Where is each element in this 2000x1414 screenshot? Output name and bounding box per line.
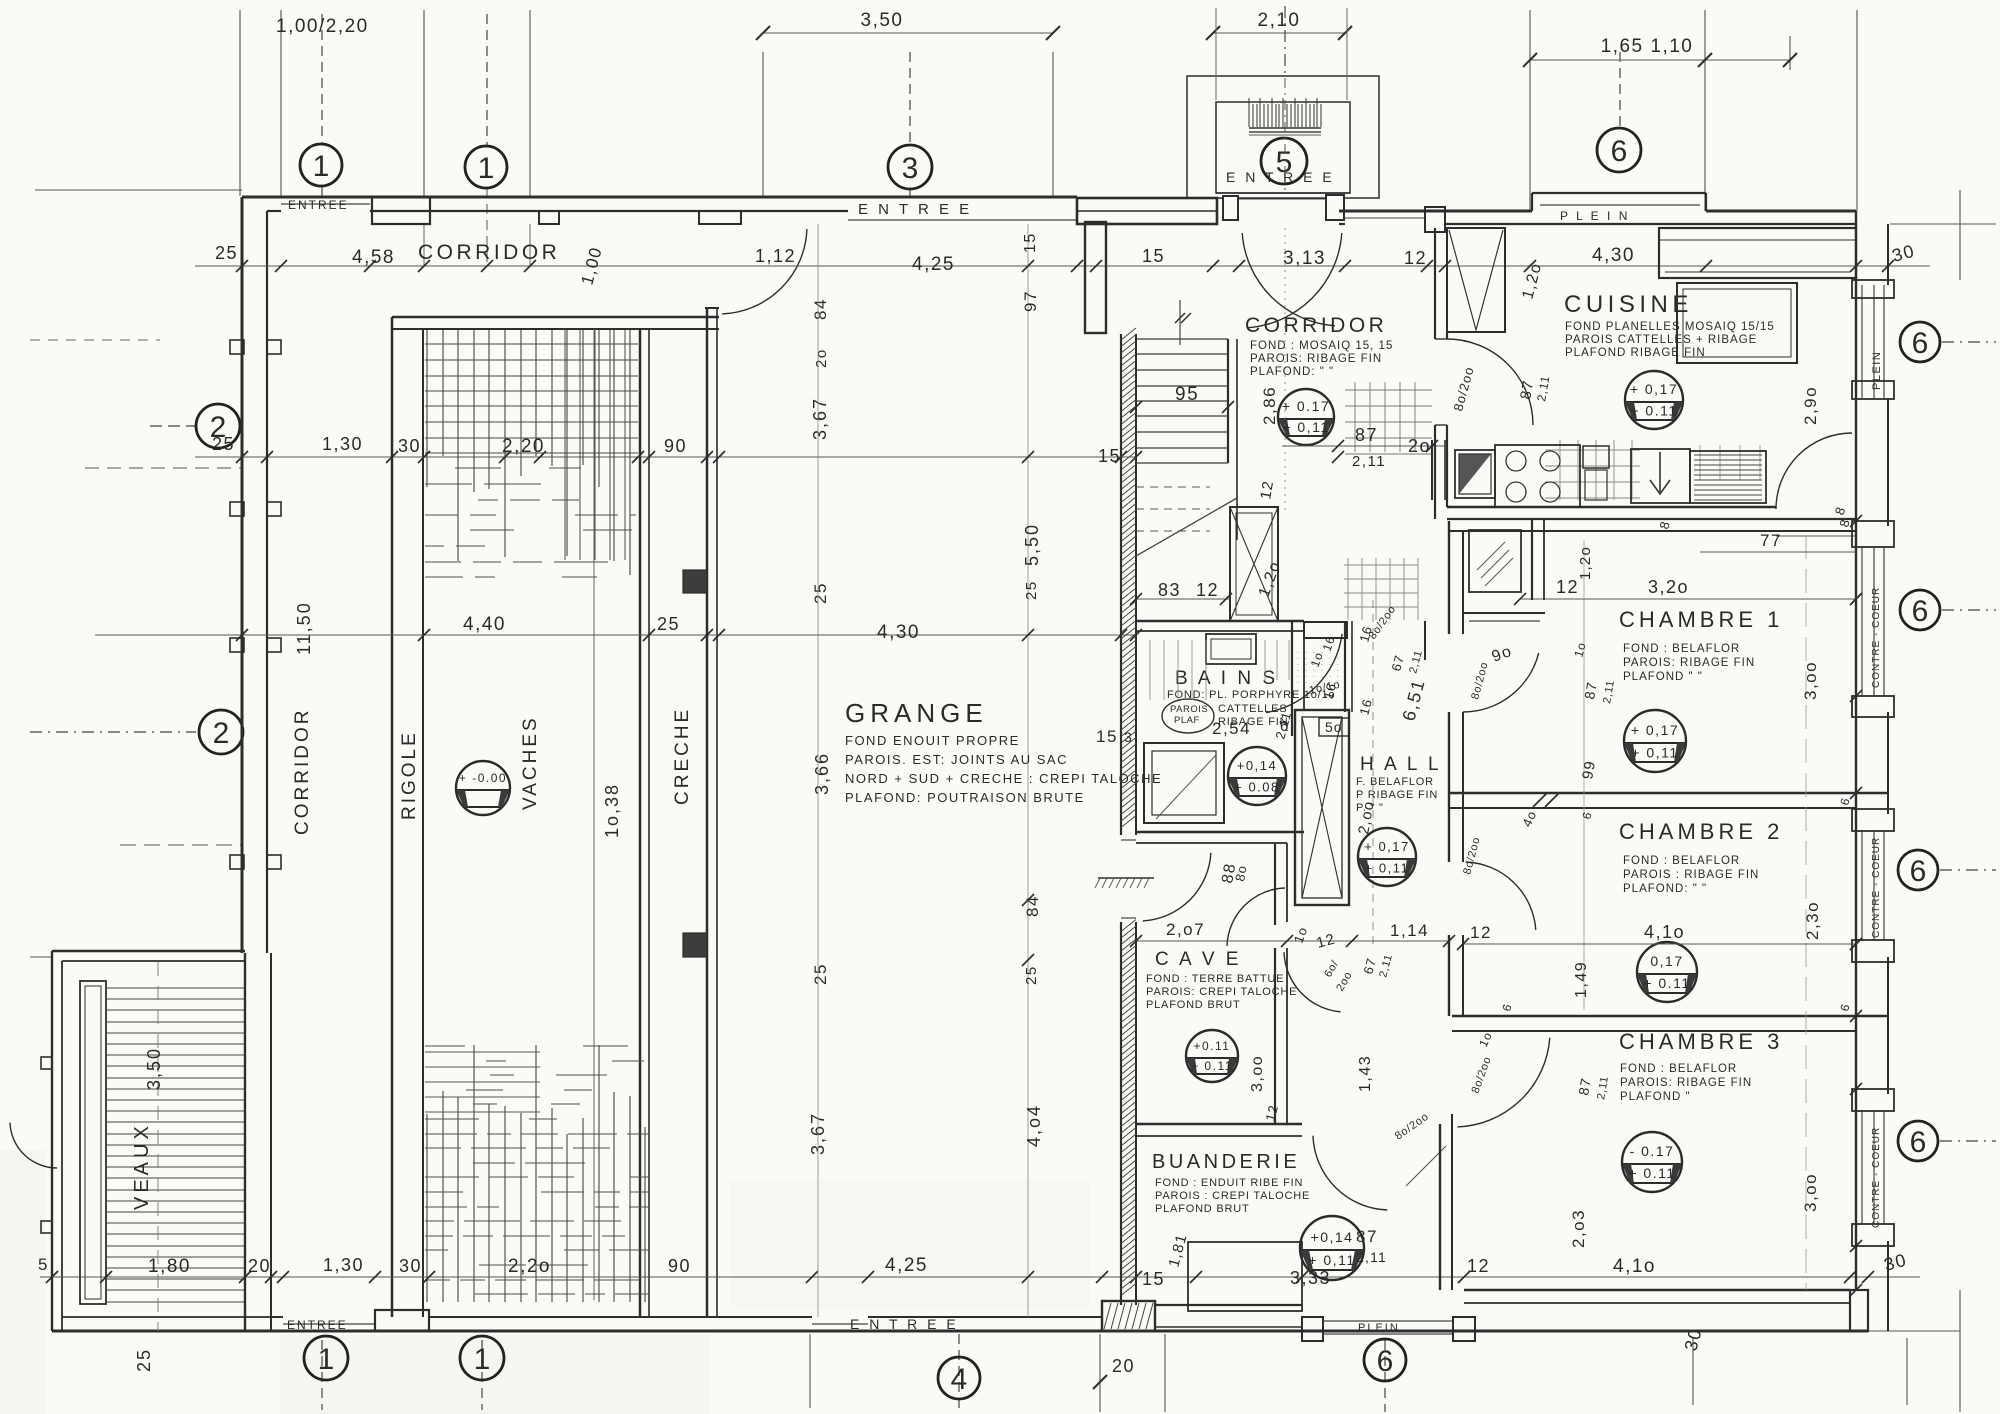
- door sill ENTREE 3 lower line: [848, 219, 1077, 221]
- margin line horizontal y=340 left: [30, 339, 160, 341]
- wall step bottom centre b: [1453, 1317, 1475, 1341]
- axis circle 6 (right a): [1900, 322, 1940, 362]
- svg-text:VEAUX: VEAUX: [131, 1122, 153, 1210]
- svg-text:1o: 1o: [1476, 1029, 1495, 1049]
- svg-text:15: 15: [1098, 446, 1121, 466]
- wall block house SW: [1102, 1301, 1155, 1331]
- svg-text:E N T R E E: E N T R E E: [858, 201, 972, 218]
- svg-text:1,80: 1,80: [148, 1256, 191, 1277]
- hatch: stable tile grid top: [425, 330, 638, 577]
- recess PLEIN kitchen top: [1531, 193, 1533, 211]
- svg-text:2,9o: 2,9o: [1801, 386, 1820, 425]
- svg-text:87: 87: [1581, 680, 1600, 700]
- axis circle 1 (bottom b): [460, 1336, 504, 1380]
- dim tick x1028 y266: [1022, 260, 1034, 272]
- svg-text:1,30: 1,30: [322, 434, 363, 454]
- wall: buanderie bottom mid: [1155, 1326, 1302, 1328]
- wall: stable inner west a: [391, 317, 394, 1317]
- door arc corridor-to-creche: [722, 229, 807, 314]
- window block c2: [1852, 940, 1894, 962]
- svg-text:1,12: 1,12: [755, 246, 796, 266]
- dim tick east x1856 y599: [1850, 593, 1862, 605]
- svg-text:12: 12: [1467, 1256, 1490, 1276]
- axis line x=1960 top stub: [1959, 190, 1961, 280]
- svg-text:PAROIS: CREPI TALOCHE: PAROIS: CREPI TALOCHE: [1146, 986, 1297, 998]
- dim tick y1277 x812: [806, 1271, 818, 1283]
- wall: chambre west a: [1448, 521, 1450, 634]
- svg-text:1,30: 1,30: [323, 1255, 364, 1275]
- svg-text:+ 0.11: + 0.11: [1191, 1059, 1233, 1073]
- construction line chambres x=1584: [1583, 540, 1585, 1010]
- dim tick y1277 x271: [265, 1271, 277, 1283]
- dim tick cave c: [1346, 935, 1358, 947]
- svg-text:2,11: 2,11: [1534, 374, 1552, 402]
- stair right wall b: [1236, 339, 1238, 540]
- wall notch left 2b: [267, 502, 281, 516]
- door arc chambre3: [1457, 1038, 1549, 1127]
- svg-text:FOND PLANELLES MOSAIQ 1: FOND PLANELLES MOSAIQ 15/15: [1565, 321, 1775, 333]
- hatch: porch boot grate: [1249, 98, 1321, 135]
- dim tick y635 x242: [236, 629, 248, 641]
- axis circle 4 (bottom): [938, 1357, 980, 1399]
- wall: porch west block: [1077, 198, 1217, 224]
- wall: ch2-ch3 band b: [1452, 1030, 1856, 1032]
- wall: house top inner seg2: [1445, 223, 1856, 225]
- hatch patch kitchen floor: [1545, 440, 1760, 500]
- svg-text:83: 83: [1158, 580, 1181, 600]
- svg-text:ENTREE: ENTREE: [288, 198, 349, 212]
- dim line ch2: [1463, 943, 1856, 945]
- svg-text:4,25: 4,25: [912, 254, 955, 275]
- post: creche black square lower: [683, 933, 707, 957]
- kitchen table: [1677, 283, 1797, 363]
- dim tick y1277 x1868: [1862, 1271, 1874, 1283]
- svg-text:4,30: 4,30: [1592, 245, 1635, 266]
- wall notch left 2a: [230, 502, 244, 516]
- dim tick y635 x707: [701, 629, 713, 641]
- wall: stable west wall pair continues: [244, 953, 246, 1331]
- door sill grange-cave: [1121, 839, 1136, 841]
- svg-text:PAROIS : RIBAGE FIN: PAROIS : RIBAGE FIN: [1623, 869, 1759, 881]
- wall: kitchen west a: [1434, 228, 1436, 339]
- wall: chambre west b: [1462, 531, 1464, 634]
- svg-text:2,20: 2,20: [502, 436, 545, 457]
- wall: bains bottom a: [1136, 831, 1304, 833]
- construction dotted x=1285: [1284, 228, 1286, 512]
- wall: kitchen bottom a: [1447, 506, 1776, 508]
- svg-text:CORRIDOR: CORRIDOR: [292, 708, 313, 835]
- dim tick east x1856 y1290: [1850, 1284, 1862, 1296]
- axis circle 3 (top): [888, 145, 932, 189]
- svg-text:6: 6: [1910, 1126, 1927, 1159]
- svg-text:1o: 1o: [1291, 924, 1311, 945]
- axis line vertical x=1053 top: [1052, 52, 1054, 196]
- wall: kitchen bottom c: [1449, 530, 1856, 532]
- svg-text:PLAFOND BRUT: PLAFOND BRUT: [1146, 999, 1241, 1011]
- door arc buanderie: [1313, 1136, 1387, 1210]
- wall: buanderie top a: [1136, 1123, 1302, 1125]
- dim tick 83 a: [1130, 593, 1142, 605]
- svg-text:25: 25: [215, 243, 238, 263]
- porch door jamb right: [1326, 195, 1344, 220]
- svg-text:6: 6: [1837, 1002, 1853, 1013]
- svg-text:PAROIS: RIBAGE FIN: PAROIS: RIBAGE FIN: [1620, 1077, 1752, 1089]
- wall: house top outer seg1: [1339, 210, 1532, 213]
- wall: barn left outer: [241, 197, 244, 953]
- dim tick y1277 x52: [46, 1271, 58, 1283]
- svg-text:1,2o: 1,2o: [1519, 261, 1545, 301]
- margin line horizontal y=468 left: [85, 467, 242, 469]
- axis 1b centre line top: [486, 14, 488, 146]
- svg-text:84: 84: [811, 298, 830, 320]
- svg-text:4,58: 4,58: [352, 247, 395, 268]
- dim tick y266 x1345: [1339, 260, 1351, 272]
- wall: wc step: [1304, 622, 1347, 638]
- door arc corridor-wc: [1266, 634, 1342, 713]
- svg-text:3,50: 3,50: [861, 10, 904, 31]
- axis 1 bottom centre line: [321, 1340, 323, 1410]
- wall: stable west wall inner: [270, 953, 272, 1331]
- construction dash x=1373 hall: [1372, 600, 1374, 950]
- dim tick 3,50 right: [1046, 26, 1060, 40]
- dim tick y457 x505: [499, 451, 511, 463]
- svg-text:P L E I N: P L E I N: [1560, 209, 1630, 223]
- svg-text:87: 87: [1356, 1227, 1378, 1246]
- svg-text:2,o3: 2,o3: [1569, 1209, 1588, 1248]
- svg-text:1,00/2,20: 1,00/2,20: [276, 16, 369, 37]
- porch outline: [1187, 76, 1379, 198]
- dim tick corridor 87: [1332, 451, 1344, 463]
- svg-text:16: 16: [1320, 634, 1338, 653]
- door sill ENTREE bottom-left: [283, 1323, 375, 1325]
- svg-text:2,10: 2,10: [1258, 10, 1301, 31]
- dim box 50: [1319, 718, 1349, 736]
- dim tick y635 x424: [418, 629, 430, 641]
- svg-text:1,43: 1,43: [1357, 1055, 1374, 1092]
- axis 6 right line d: [1940, 1140, 1996, 1142]
- wall: creche west b: [648, 329, 650, 1317]
- wall: stable box top band inner: [392, 328, 719, 330]
- svg-text:30: 30: [1890, 241, 1917, 266]
- wall: buanderie bottom inner: [1155, 1304, 1302, 1306]
- svg-text:2o: 2o: [813, 348, 830, 368]
- dim tick y1277 x868: [862, 1271, 874, 1283]
- svg-text:RIGOLE: RIGOLE: [399, 730, 420, 820]
- dim tick east x1856 y793: [1850, 787, 1862, 799]
- window chambre2 east: [1861, 831, 1863, 940]
- axis 3 centre line top: [909, 52, 911, 145]
- svg-text:6: 6: [1912, 327, 1929, 360]
- svg-text:30: 30: [1882, 1250, 1909, 1275]
- dim tick y635 x1136: [1130, 629, 1142, 641]
- axis circle 2 (left upper): [196, 404, 240, 448]
- axis 1 centre line below circle: [321, 186, 323, 197]
- wall: veaux annex left outer: [51, 951, 53, 1331]
- dim tick y266 x487: [481, 260, 493, 272]
- window kitchen east: [1861, 285, 1863, 398]
- svg-text:4,25: 4,25: [885, 1255, 928, 1276]
- svg-text:2oo: 2oo: [1334, 970, 1355, 994]
- door arc cave: [1227, 888, 1285, 946]
- svg-text:H A L L: H A L L: [1360, 754, 1442, 775]
- window block a2: [1852, 381, 1894, 399]
- svg-text:P RIBAGE FIN: P RIBAGE FIN: [1356, 789, 1438, 801]
- svg-text:+ 0.17: + 0.17: [1282, 398, 1330, 414]
- svg-text:6: 6: [1579, 810, 1595, 821]
- door sill kitchen: [1435, 338, 1447, 340]
- wall: house west hatched outer: [1120, 334, 1122, 835]
- svg-text:CONTRE - COEUR: CONTRE - COEUR: [1871, 587, 1882, 688]
- stair right wall a: [1227, 339, 1229, 463]
- window chambre3 east: [1861, 1111, 1863, 1224]
- svg-text:3,50: 3,50: [144, 1047, 164, 1090]
- svg-text:2: 2: [213, 717, 230, 750]
- window block d2: [1852, 1224, 1894, 1246]
- margin line y=224 right: [1890, 223, 1996, 225]
- svg-text:PLAFOND " ": PLAFOND " ": [1623, 671, 1703, 683]
- dim tick 95 a: [1130, 401, 1142, 413]
- level marker bains: [1228, 747, 1286, 805]
- svg-text:PLEIN: PLEIN: [1871, 351, 1883, 390]
- axis circle 5 (top): [1261, 138, 1307, 184]
- svg-text:1,2o: 1,2o: [1256, 559, 1285, 600]
- axis circle 6 (bottom): [1364, 1339, 1406, 1381]
- dim tick east x1856 y1016: [1850, 1010, 1862, 1022]
- svg-text:1,65 1,10: 1,65 1,10: [1601, 36, 1694, 57]
- wall notch left 1a: [230, 340, 244, 354]
- svg-text:6: 6: [1377, 1345, 1394, 1378]
- dim tick y1277 x1850: [1844, 1271, 1856, 1283]
- wall: barn top outer line: [242, 196, 1077, 199]
- wall: chambre3 bottom inner b: [1464, 1302, 1850, 1304]
- axis circle 6 (top): [1597, 128, 1641, 172]
- wall: bottom inner seg1: [271, 1316, 283, 1318]
- svg-text:CHAMBRE 1: CHAMBRE 1: [1619, 607, 1783, 632]
- bains basin: [1206, 634, 1256, 664]
- svg-text:4,o4: 4,o4: [1024, 1104, 1044, 1147]
- door sill corridor entry: [1345, 217, 1425, 219]
- svg-text:6,51: 6,51: [1399, 676, 1429, 723]
- dim line y=457: [195, 456, 1136, 458]
- dim tick y1277 x1102: [1096, 1271, 1108, 1283]
- svg-text:ENTREE: ENTREE: [287, 1318, 348, 1332]
- dim tick y1277 x375: [369, 1271, 381, 1283]
- wall: kitchen bottom b: [1447, 518, 1856, 520]
- svg-text:4: 4: [951, 1363, 968, 1396]
- svg-text:FOND ENOUIT PROPRE: FOND ENOUIT PROPRE: [845, 733, 1020, 748]
- svg-text:1o,38: 1o,38: [602, 783, 622, 838]
- svg-text:2,11: 2,11: [1595, 1075, 1611, 1101]
- door sill ENTREE 1 top: [281, 203, 370, 205]
- wall: bottom inner annex: [62, 1316, 271, 1318]
- dim tick 2,10 left: [1206, 26, 1220, 40]
- kitchen counter top band: [1659, 228, 1856, 278]
- svg-text:1,49: 1,49: [1573, 961, 1590, 998]
- margin line y=1331 right stub: [1868, 1330, 1960, 1332]
- wall: creche east cap: [705, 307, 719, 309]
- wardrobe corridor east (V): [1447, 228, 1505, 332]
- svg-text:PLAFOND: " ": PLAFOND: " ": [1250, 366, 1334, 378]
- svg-text:+ 0.11: + 0.11: [1643, 975, 1690, 991]
- wall: bottom inner seg3: [868, 1316, 1102, 1318]
- wall notch annex a: [41, 1057, 52, 1069]
- wall notch annex b: [41, 1221, 52, 1233]
- svg-text:6: 6: [1611, 135, 1628, 168]
- svg-text:NORD + SUD + CRECHE : CREPI TA: NORD + SUD + CRECHE : CREPI TALOCHE: [845, 771, 1162, 786]
- level marker hall: [1358, 828, 1416, 886]
- axis line vertical x=1530 top: [1529, 10, 1531, 211]
- axis 6 right line c: [1940, 869, 1996, 871]
- door arc porch right leaf: [1242, 233, 1335, 326]
- svg-text:+ -0.00: + -0.00: [459, 771, 507, 785]
- svg-text:77: 77: [1760, 531, 1782, 550]
- svg-text:84: 84: [1023, 895, 1042, 917]
- window block d1: [1852, 1089, 1894, 1111]
- door arc veaux west: [10, 1123, 57, 1168]
- dim tick x1028 y960: [1022, 954, 1034, 966]
- axis 6 right line a: [1942, 341, 1996, 343]
- dim tick 1,10 right: [1783, 53, 1797, 67]
- axis line veaux x=158: [157, 962, 159, 1331]
- wall pillar top a: [372, 197, 430, 224]
- wall notch left 4b: [267, 855, 281, 869]
- wall notch left 3b: [267, 638, 281, 652]
- svg-text:FOND : BELAFLOR: FOND : BELAFLOR: [1620, 1063, 1737, 1075]
- door arc kitchen-hall: [1776, 433, 1852, 509]
- wall pillar top c: [699, 211, 741, 224]
- stairs walk line: [1179, 300, 1181, 345]
- axis circle 1 (top b): [465, 146, 507, 188]
- axis 5 dash through porch: [1284, 78, 1286, 190]
- svg-text:CORRIDOR: CORRIDOR: [1245, 314, 1387, 337]
- ground hatch at grange door: [1095, 878, 1154, 888]
- svg-text:2,3o: 2,3o: [1803, 901, 1822, 940]
- dim tick x1028 y457: [1022, 451, 1034, 463]
- axis circle 6 (right d): [1898, 1121, 1938, 1161]
- level marker corridor: [1278, 389, 1334, 445]
- svg-text:PLAFOND ": PLAFOND ": [1620, 1091, 1691, 1103]
- axis line vertical x=763 top: [762, 52, 764, 196]
- svg-text:15: 15: [1142, 1269, 1165, 1289]
- dim tick east x1856 y696: [1850, 690, 1862, 702]
- svg-text:8: 8: [1832, 504, 1849, 517]
- svg-text:CRECHE: CRECHE: [672, 707, 693, 805]
- wall: creche east a: [706, 308, 709, 1317]
- svg-text:3,13: 3,13: [1283, 248, 1326, 269]
- svg-text:15: 15: [1022, 232, 1039, 253]
- wall: house west hatched inner: [1135, 334, 1137, 835]
- axis 1 centre line (dashed) top-left: [321, 14, 323, 144]
- axis 1b stub corridor: [486, 188, 488, 266]
- wall: chambre3 west b: [1451, 1114, 1453, 1290]
- wall: house NE corner vertical: [1855, 211, 1857, 224]
- dim tick x1028 y635: [1022, 629, 1034, 641]
- door arc kitchen entry: [1447, 339, 1533, 425]
- dim tick 20 bottom: [1093, 1375, 1107, 1389]
- dim line y=266: [195, 265, 1930, 267]
- svg-text:+ 0,17: + 0,17: [1630, 381, 1678, 397]
- trough: veaux outer: [80, 981, 106, 1304]
- dim line 1,65/1,10 top: [1530, 59, 1790, 61]
- svg-text:8o/2oo: 8o/2oo: [1461, 836, 1483, 876]
- kitchen sink unit: [1455, 450, 1495, 498]
- axis line vertical x=1790 top: [1789, 36, 1791, 70]
- svg-text:PAROIS. EST: JOINTS AU SAC: PAROIS. EST: JOINTS AU SAC: [845, 752, 1068, 767]
- dim tick east x1856 y521: [1850, 515, 1862, 527]
- wall: wc-hall divider b: [1351, 621, 1353, 712]
- dim tick y266 x1427: [1421, 260, 1433, 272]
- svg-text:+0.11: +0.11: [1194, 1039, 1231, 1053]
- axis line vertical x=530 top: [529, 10, 531, 196]
- svg-text:PAROIS : CREPI TALOCHE: PAROIS : CREPI TALOCHE: [1155, 1190, 1310, 1202]
- kitchen hob unit: [1495, 445, 1580, 507]
- wall: porch west block inner line: [1077, 210, 1217, 212]
- hatch patch bains floor: [1150, 640, 1289, 700]
- svg-text:2,11: 2,11: [1356, 1249, 1387, 1265]
- scan smudge bottom-left: [280, 1335, 710, 1414]
- svg-text:1,14: 1,14: [1390, 921, 1429, 940]
- svg-text:1,81: 1,81: [1165, 1232, 1190, 1269]
- dim line 87 corridor: [1282, 445, 1445, 447]
- axis circle 6 (right b): [1900, 590, 1940, 630]
- axis 2b centre line left: [150, 425, 195, 427]
- svg-text:3,oo: 3,oo: [1801, 1173, 1820, 1212]
- axis line x=1100 bottom: [1099, 1334, 1101, 1412]
- axis 6 centre line top: [1619, 52, 1621, 128]
- dim tick y635 x649: [643, 629, 655, 641]
- dim tick ch1 b: [1850, 593, 1862, 605]
- wall: stable inner west b: [422, 329, 424, 1317]
- svg-text:+ 0.11: + 0.11: [1630, 403, 1677, 419]
- svg-text:PAROIS: RIBAGE FIN: PAROIS: RIBAGE FIN: [1623, 657, 1755, 669]
- svg-text:0,17: 0,17: [1650, 953, 1683, 969]
- svg-text:VACHES: VACHES: [520, 715, 541, 810]
- wall: ch1-ch2 band b: [1449, 807, 1856, 809]
- dim tick ch2 b: [1850, 938, 1862, 950]
- svg-text:PAROIS: RIBAGE FIN: PAROIS: RIBAGE FIN: [1250, 353, 1382, 365]
- dim tick y1277 x283: [277, 1271, 289, 1283]
- wall: house west upper block: [1085, 222, 1106, 333]
- post: creche black square upper: [683, 570, 707, 593]
- dim tick 1,65 mid: [1698, 53, 1712, 67]
- trough: veaux inner: [85, 986, 101, 1299]
- margin line y=635 left extension: [95, 634, 242, 636]
- dim tick y457 x649: [643, 451, 655, 463]
- axis 1b bottom centre line: [481, 1340, 483, 1410]
- dim tick y457 x242: [236, 451, 248, 463]
- svg-text:4,1o: 4,1o: [1644, 922, 1685, 942]
- svg-text:FOND : ENDUIT RIBE FIN: FOND : ENDUIT RIBE FIN: [1155, 1177, 1303, 1189]
- wall: wc east stub: [1424, 621, 1426, 660]
- axis 6 right line b: [1942, 609, 1996, 611]
- dim tick x1028 y900: [1022, 894, 1034, 906]
- dim tick 95 b: [1222, 401, 1234, 413]
- window block b2: [1852, 696, 1894, 717]
- axis line x=810 bottom: [809, 1334, 811, 1408]
- svg-text:1,2o: 1,2o: [1577, 546, 1594, 580]
- svg-text:BUANDERIE: BUANDERIE: [1152, 1151, 1300, 1173]
- svg-text:+ 0.11: + 0.11: [1628, 1165, 1675, 1181]
- axis line x=1907 bottom: [1906, 1338, 1908, 1405]
- svg-text:+ 0,11: + 0,11: [1365, 861, 1410, 876]
- dim tick y266 x1239: [1233, 260, 1245, 272]
- scan smudge left edge: [0, 1150, 45, 1414]
- svg-text:FOND : BELAFLOR: FOND : BELAFLOR: [1623, 643, 1740, 655]
- svg-text:12: 12: [1315, 931, 1338, 952]
- svg-text:- 0.17: - 0.17: [1630, 1143, 1675, 1159]
- wall: house top outer seg2: [1706, 210, 1856, 213]
- svg-text:20: 20: [248, 1256, 271, 1276]
